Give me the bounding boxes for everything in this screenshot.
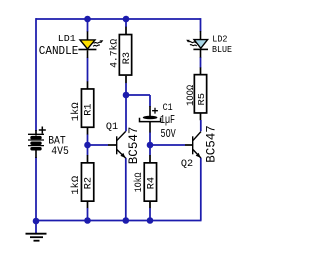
svg-text:LD1: LD1 xyxy=(58,33,76,44)
pin R3 top xyxy=(125,27,127,35)
transistor Q1 collector lead xyxy=(117,131,126,140)
resistor R2 box xyxy=(81,163,93,201)
svg-text:1OOΩ: 1OOΩ xyxy=(185,85,196,106)
wire bottom ground rail xyxy=(36,220,202,222)
svg-text:R1: R1 xyxy=(82,103,93,115)
svg-text:4V5: 4V5 xyxy=(51,146,69,158)
svg-text:CANDLE: CANDLE xyxy=(39,44,79,58)
svg-text:R2: R2 xyxy=(82,177,93,189)
junction dot top rail / R3 xyxy=(123,16,130,23)
junction dot ground rail / R4 xyxy=(147,217,154,224)
wire R3 top stem xyxy=(125,19,127,27)
pin R2 bottom xyxy=(87,201,89,208)
junction dot top rail / LD1 xyxy=(84,16,91,23)
wire LD2 cathode to R5 xyxy=(200,57,202,68)
transistor Q2 collector lead xyxy=(193,132,201,141)
svg-text:Q2: Q2 xyxy=(181,158,193,169)
junction dot ground rail / battery xyxy=(33,218,40,225)
svg-text:BLUE: BLUE xyxy=(212,44,232,55)
wire Q1 emitter to ground rail xyxy=(125,158,127,221)
pin R1 top xyxy=(87,81,89,89)
wire R1 bottom to node A to R2 top xyxy=(87,135,89,156)
svg-text:1OkΩ: 1OkΩ xyxy=(133,173,145,193)
wire C1 top lead xyxy=(149,95,151,107)
svg-text:R3: R3 xyxy=(121,52,132,64)
pin R1 bottom xyxy=(87,128,89,135)
wire C1 bottom to node C xyxy=(149,132,151,145)
LED LD2 triangle (light blue) xyxy=(194,40,208,49)
junction dot ground rail / R2 xyxy=(84,217,91,224)
LED LD1 light arrows xyxy=(94,42,102,43)
svg-text:R4: R4 xyxy=(146,177,157,189)
capacitor C1 leads xyxy=(149,106,151,133)
transistor Q2 base lead xyxy=(185,144,192,146)
wire left rail upper (top rail to battery +) xyxy=(35,18,37,131)
transistor Q2 base bar xyxy=(192,136,193,154)
wire LD1 cathode to R1 xyxy=(87,58,89,82)
svg-text:5OV: 5OV xyxy=(161,127,177,141)
transistor Q2 emitter lead with arrow xyxy=(193,149,201,158)
capacitor C1 top plate xyxy=(143,116,158,120)
transistor Q1 base lead xyxy=(108,144,116,146)
LED LD1 triangle (yellow) xyxy=(80,40,95,49)
ground xyxy=(35,221,37,233)
wire top rail V+ xyxy=(36,18,201,20)
wire Q1 base xyxy=(88,144,109,146)
transistor Q1 emitter lead with arrow xyxy=(117,149,126,158)
junction node A (R1 / R2 / Q1 base) xyxy=(84,142,91,149)
pin R4 top xyxy=(149,155,151,163)
resistor R1 box xyxy=(81,89,93,127)
wire R2 bottom to ground rail xyxy=(87,208,89,221)
svg-text:R5: R5 xyxy=(196,93,207,106)
svg-text:LD2: LD2 xyxy=(212,33,227,44)
svg-text:1kΩ: 1kΩ xyxy=(70,176,82,195)
capacitor C1 bottom cup plate xyxy=(140,118,161,122)
pin R5 top xyxy=(200,67,202,74)
LED LD2 cathode bar xyxy=(193,49,208,51)
svg-text:1kΩ: 1kΩ xyxy=(70,102,82,121)
LED LD1 cathode bar xyxy=(78,49,96,51)
resistor R4 box xyxy=(144,163,156,201)
wire node B to C1 top xyxy=(126,94,150,96)
wire R3 bottom to node B xyxy=(125,83,127,95)
battery BAT leads xyxy=(35,130,37,158)
junction node C (C1 / R4 / Q2 base) xyxy=(147,142,154,149)
wire node B down to Q1 collector xyxy=(125,95,127,131)
transistor Q1 base bar xyxy=(116,136,117,154)
pin R2 top xyxy=(87,155,89,163)
wire left rail lower (battery - to ground rail) xyxy=(35,157,37,221)
LED LD1 black leads xyxy=(87,31,89,58)
svg-text:Q1: Q1 xyxy=(106,121,118,132)
wire Q2 emitter to ground rail xyxy=(200,158,202,221)
svg-text:BC547: BC547 xyxy=(204,125,218,163)
pin R4 bottom xyxy=(149,201,151,208)
LED LD2 light arrows xyxy=(189,42,197,43)
wire node C to Q2 base xyxy=(150,144,185,146)
wire node C to R4 top xyxy=(149,145,151,155)
battery plus sign xyxy=(39,127,46,134)
pin R3 bottom xyxy=(125,76,127,83)
wire LD1 anode stem xyxy=(87,19,89,32)
wire LD2 anode stem xyxy=(200,18,202,31)
junction node B (R3 / C1 / Q1 collector) xyxy=(123,92,130,99)
LED LD2 black leads xyxy=(200,31,202,58)
svg-text:1µF: 1µF xyxy=(160,113,175,127)
wire R4 bottom to ground rail xyxy=(149,208,151,221)
battery BAT plates xyxy=(28,134,44,150)
junction dot ground rail / Q1 emitter xyxy=(123,217,130,224)
pin R5 bottom xyxy=(200,113,202,120)
wire R5 bottom to Q2 collector xyxy=(200,120,202,131)
resistor R3 box xyxy=(119,35,131,76)
svg-text:BC547: BC547 xyxy=(127,127,141,165)
svg-text:4.7kΩ: 4.7kΩ xyxy=(109,39,121,68)
resistor R5 box xyxy=(194,75,206,113)
capacitor C1 plus sign xyxy=(152,108,158,114)
